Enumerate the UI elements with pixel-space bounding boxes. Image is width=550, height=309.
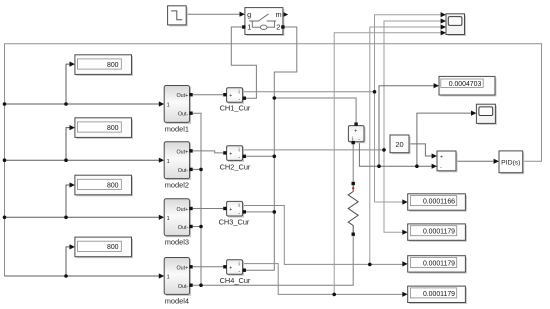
svg-text:1: 1 bbox=[167, 275, 170, 281]
wire CH3 current signal i3 to display D3 bbox=[243, 206, 404, 265]
display Ref4 800 bbox=[75, 237, 133, 258]
wire i2 to display D2 bbox=[384, 150, 403, 232]
display D4 0.0001179 bbox=[408, 286, 467, 304]
wire i4 to scope input4 bbox=[334, 33, 441, 295]
subsystem model2 bbox=[164, 142, 193, 190]
svg-text:i: i bbox=[239, 148, 240, 154]
wire i2 to scope input2 bbox=[384, 21, 441, 150]
wire breaker port2 to bus node bbox=[274, 27, 297, 98]
wire row1 to model1 input bbox=[5, 103, 161, 105]
svg-text:Out+: Out+ bbox=[176, 93, 188, 99]
wire breaker port1 to CH1 minus bbox=[231, 27, 256, 98]
svg-text:Out-: Out- bbox=[178, 168, 189, 174]
svg-text:Out+: Out+ bbox=[176, 207, 188, 213]
svg-text:model3: model3 bbox=[165, 238, 189, 247]
wire branch row4 to display Ref4 bbox=[66, 247, 71, 276]
wire row3 to model3 input bbox=[5, 216, 161, 218]
svg-text:-: - bbox=[358, 136, 360, 142]
svg-text:i: i bbox=[239, 203, 240, 209]
svg-text:+: + bbox=[229, 207, 232, 213]
wire model2 Out+ to CH2 bbox=[193, 151, 224, 153]
wire constant 20 to sum bbox=[409, 144, 433, 156]
wire bus node to ammeter plus bbox=[274, 98, 356, 122]
svg-text:1: 1 bbox=[167, 103, 170, 109]
wire CH1 current signal i1 bbox=[243, 91, 375, 93]
display Dtot 0.0004703 bbox=[439, 76, 497, 96]
scope block bbox=[446, 14, 466, 36]
wire itotal branch to scope2 bbox=[417, 113, 472, 166]
svg-text:0.0001166: 0.0001166 bbox=[423, 199, 455, 206]
subsystem model4 bbox=[164, 258, 193, 306]
svg-text:-: - bbox=[239, 269, 241, 275]
svg-text:2: 2 bbox=[276, 23, 280, 32]
resistor shunt bbox=[348, 182, 358, 236]
svg-text:-: - bbox=[239, 211, 241, 217]
wire CH2 minus to bus bbox=[246, 155, 274, 157]
arrowheads bbox=[70, 12, 500, 297]
wire ammeter minus to resistor top bbox=[352, 144, 354, 181]
display D3 0.0001179 bbox=[408, 256, 467, 274]
current sensor CH2_Cur bbox=[220, 146, 251, 172]
wire branch row2 to display Ref2 bbox=[66, 128, 71, 161]
svg-text:model1: model1 bbox=[165, 124, 189, 133]
wire sum to PID bbox=[456, 160, 495, 162]
svg-text:Out+: Out+ bbox=[176, 149, 188, 155]
wire model3 Out+ to CH3 bbox=[193, 208, 224, 210]
breaker block bbox=[242, 8, 288, 36]
PID controller bbox=[499, 151, 524, 174]
svg-text:CH1_Cur: CH1_Cur bbox=[220, 103, 251, 112]
wire bus vertical to CH4 minus bbox=[246, 98, 274, 270]
svg-text:800: 800 bbox=[107, 244, 119, 251]
display Ref3 800 bbox=[75, 175, 133, 196]
svg-text:model4: model4 bbox=[165, 296, 189, 305]
wire step to breaker gate bbox=[186, 13, 241, 15]
svg-text:CH3_Cur: CH3_Cur bbox=[219, 218, 250, 227]
wire branch row3 to display Ref3 bbox=[66, 185, 71, 217]
svg-text:+: + bbox=[229, 265, 232, 271]
display D1 0.0001166 bbox=[408, 194, 467, 212]
wire itotal branch to display Dtot bbox=[379, 86, 436, 167]
svg-text:0.0004703: 0.0004703 bbox=[449, 81, 482, 88]
svg-text:0.0001179: 0.0001179 bbox=[423, 260, 455, 267]
wire model1 Out+ to CH1 bbox=[193, 94, 224, 96]
svg-text:+: + bbox=[229, 151, 232, 157]
current sensor CH1_Cur bbox=[220, 88, 251, 113]
svg-text:-: - bbox=[440, 165, 442, 171]
wire CH2 current signal i2 bbox=[243, 149, 384, 151]
step source block bbox=[168, 6, 188, 27]
wire i1 to scope input1 bbox=[375, 15, 441, 92]
display Ref1 800 bbox=[75, 55, 133, 76]
svg-text:1: 1 bbox=[247, 23, 251, 32]
wire branch row1 to display Ref1 bbox=[66, 64, 71, 104]
wire i3 to scope input3 bbox=[370, 27, 441, 264]
svg-text:PID(s): PID(s) bbox=[501, 159, 520, 166]
scope2 bbox=[476, 104, 497, 125]
svg-text:-: - bbox=[239, 97, 241, 103]
svg-text:+: + bbox=[354, 129, 357, 135]
svg-text:Out-: Out- bbox=[178, 284, 189, 290]
svg-text:800: 800 bbox=[107, 182, 119, 189]
current sensor CH3_Cur bbox=[219, 201, 250, 226]
current sensor CH4_Cur bbox=[220, 260, 251, 286]
wire row4 to model4 input bbox=[5, 275, 161, 277]
display D2 0.0001179 bbox=[408, 224, 467, 242]
svg-text:i: i bbox=[239, 262, 240, 268]
wire CH4 current signal i4 to display D4 bbox=[243, 264, 404, 295]
sum block bbox=[437, 151, 458, 172]
svg-text:800: 800 bbox=[107, 125, 119, 132]
svg-text:-: - bbox=[239, 155, 241, 161]
ammeter total current bbox=[348, 122, 365, 144]
svg-text:0.0001179: 0.0001179 bbox=[423, 291, 455, 298]
subsystem model3 bbox=[164, 199, 193, 247]
svg-text:20: 20 bbox=[395, 140, 403, 149]
svg-text:+: + bbox=[440, 155, 443, 161]
svg-text:model2: model2 bbox=[165, 181, 189, 190]
wire feedback loop PID to models bbox=[5, 44, 542, 276]
constant 20 bbox=[390, 135, 411, 154]
svg-text:1: 1 bbox=[167, 159, 170, 165]
wire model4 Out+ to CH4 bbox=[193, 266, 224, 268]
display Ref2 800 bbox=[75, 118, 133, 139]
wire row2 to model2 input bbox=[5, 159, 161, 161]
wire ammeter signal itotal to sum bbox=[359, 142, 432, 167]
svg-text:0.0001179: 0.0001179 bbox=[423, 229, 455, 236]
svg-text:i: i bbox=[239, 90, 240, 96]
svg-text:Out-: Out- bbox=[178, 225, 189, 231]
svg-text:1: 1 bbox=[167, 216, 170, 222]
svg-text:Out-: Out- bbox=[178, 112, 189, 118]
wire model Out- common bus to resistor bottom bbox=[193, 113, 354, 285]
wire i1 to display D1 bbox=[375, 92, 404, 202]
svg-text:+: + bbox=[229, 93, 232, 99]
svg-text:CH4_Cur: CH4_Cur bbox=[220, 276, 251, 285]
svg-text:CH2_Cur: CH2_Cur bbox=[220, 162, 251, 171]
svg-text:Out+: Out+ bbox=[176, 265, 188, 271]
svg-text:800: 800 bbox=[107, 62, 119, 69]
subsystem model1 bbox=[164, 86, 193, 134]
svg-text:m: m bbox=[276, 10, 282, 19]
wire CH3 minus to bus bbox=[246, 211, 274, 213]
svg-text:g: g bbox=[247, 10, 251, 19]
